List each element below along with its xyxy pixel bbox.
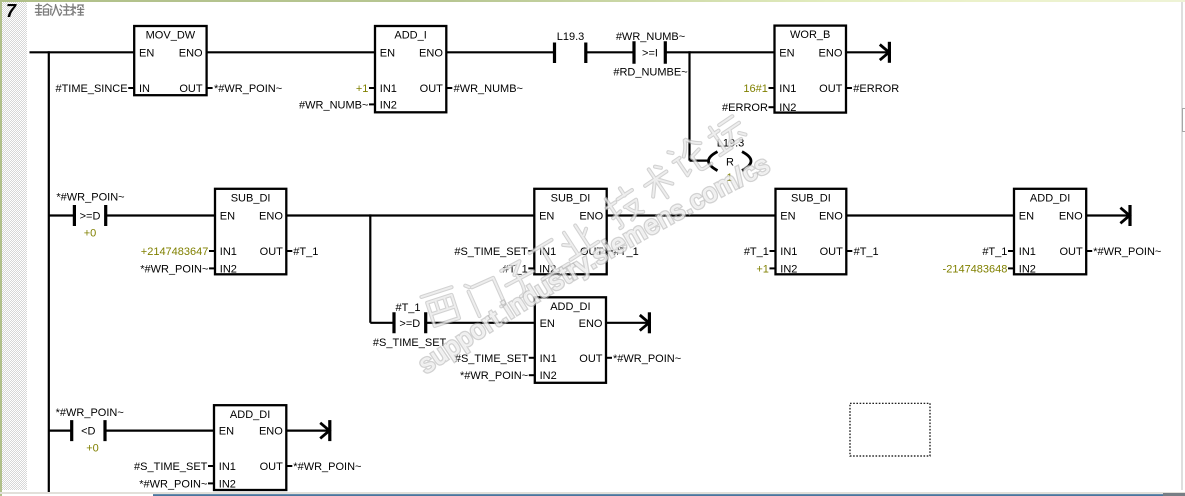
svg-text:ENO: ENO — [819, 211, 843, 223]
pin tick SUB_DI2 IN2 — [528, 267, 534, 269]
pin tick MOV_DW OUT — [207, 87, 213, 89]
pin tick MOV_DW IN — [128, 87, 134, 89]
svg-text:OUT: OUT — [260, 246, 284, 258]
svg-text:IN2: IN2 — [1019, 263, 1036, 275]
svg-text:+1: +1 — [356, 83, 369, 95]
open branch arrow rung 1 — [880, 42, 890, 63]
svg-text:ENO: ENO — [259, 211, 283, 223]
pin tick ADD_DI1 OUT — [1086, 250, 1092, 252]
box ADD_DI 1 — [1014, 189, 1086, 276]
open branch arrow rung 2 — [1120, 205, 1130, 226]
coil L19.3 (R) reset — [709, 138, 752, 184]
pin tick ADD_DI2 OUT — [606, 357, 612, 359]
box MOV_DW — [134, 26, 206, 95]
svg-text:+0: +0 — [86, 443, 99, 455]
wire SUB_DI2 ENO to SUB_DI3 EN — [607, 214, 776, 216]
svg-text:ADD_DI: ADD_DI — [550, 301, 590, 313]
svg-text:SUB_DI: SUB_DI — [231, 192, 271, 204]
svg-text:#T_1: #T_1 — [395, 302, 420, 314]
svg-text:EN: EN — [380, 47, 395, 59]
svg-text:IN1: IN1 — [380, 83, 397, 95]
svg-text:OUT: OUT — [819, 83, 843, 95]
svg-text:IN2: IN2 — [219, 478, 236, 490]
svg-text:EN: EN — [540, 318, 555, 330]
svg-text:#T_1: #T_1 — [982, 246, 1007, 258]
pin tick ADD_DI1 IN2 — [1008, 267, 1014, 269]
pin tick SUB_DI1 IN2 — [209, 267, 215, 269]
svg-text:#RD_NUMBE~: #RD_NUMBE~ — [613, 67, 687, 79]
svg-text:OUT: OUT — [179, 83, 203, 95]
svg-text:ADD_DI: ADD_DI — [230, 409, 270, 421]
svg-text:16#1: 16#1 — [743, 83, 767, 95]
svg-text:EN: EN — [219, 426, 234, 438]
pin tick SUB_DI2 IN1 — [528, 250, 534, 252]
box ADD_DI 3 — [214, 405, 286, 490]
pin tick ADD_DI2 IN1 — [529, 357, 535, 359]
svg-text:IN2: IN2 — [380, 99, 397, 111]
pin tick WOR_B OUT — [846, 87, 852, 89]
svg-text:*#WR_POIN~: *#WR_POIN~ — [56, 407, 124, 419]
svg-text:+1: +1 — [756, 263, 769, 275]
pin tick ADD_DI3 IN1 — [208, 465, 214, 467]
svg-text:#T_1: #T_1 — [854, 246, 879, 258]
box SUB_DI 2 — [534, 189, 606, 276]
wire rail to contact >=D — [48, 214, 73, 216]
svg-text:support.industry.siemens.com/c: support.industry.siemens.com/cs — [413, 149, 775, 379]
svg-text:ENO: ENO — [419, 47, 443, 59]
svg-text:EN: EN — [1019, 211, 1034, 223]
open branch arrow rung 3 — [640, 312, 650, 333]
box SUB_DI 1 — [215, 189, 286, 276]
wire branch to contact >=D rung3 — [370, 322, 394, 324]
svg-text:#S_TIME_SET: #S_TIME_SET — [134, 461, 208, 473]
wire SUB_DI3 ENO to ADD_DI1 EN — [846, 214, 1014, 216]
svg-text:OUT: OUT — [420, 83, 444, 95]
wire MOV_DW ENO to ADD_I EN — [207, 51, 375, 53]
svg-text:SUB_DI: SUB_DI — [791, 192, 831, 204]
left power rail start segment — [30, 51, 135, 53]
pin tick ADD_DI3 OUT — [286, 465, 292, 467]
right page-break line — [1181, 2, 1182, 490]
svg-text:IN2: IN2 — [220, 263, 237, 275]
wire SUB_DI1 ENO to SUB_DI2 EN — [286, 214, 534, 216]
pin tick ADD_DI2 IN2 — [529, 374, 535, 376]
svg-text:IN1: IN1 — [779, 83, 796, 95]
svg-text:ADD_DI: ADD_DI — [1030, 192, 1070, 204]
node branch junction rung2 to rung3 — [369, 214, 371, 322]
svg-text:OUT: OUT — [579, 353, 603, 365]
svg-text:ENO: ENO — [1059, 211, 1083, 223]
svg-text:IN2: IN2 — [780, 263, 797, 275]
wire comparator to WOR_B EN — [665, 51, 774, 53]
svg-text:EN: EN — [780, 211, 795, 223]
empty selection placeholder box (dotted) — [850, 403, 930, 456]
wire WOR_B ENO to open branch arrow — [846, 51, 887, 53]
svg-text:*#WR_POIN~: *#WR_POIN~ — [460, 370, 528, 382]
svg-text:#T_1: #T_1 — [744, 246, 769, 258]
node junction to reset branch — [688, 51, 690, 160]
pin tick WOR_B IN1 — [769, 87, 775, 89]
comparator contact >=D rung2 — [56, 192, 124, 240]
svg-text:ENO: ENO — [819, 47, 843, 59]
pin tick ADD_I OUT — [446, 87, 452, 89]
pin tick ADD_I IN1 — [369, 87, 375, 89]
svg-text:EN: EN — [539, 211, 554, 223]
comparator contact >=I — [613, 31, 687, 79]
svg-text:EN: EN — [139, 47, 154, 59]
svg-text:IN1: IN1 — [220, 246, 237, 258]
svg-text:ENO: ENO — [179, 47, 203, 59]
svg-text:OUT: OUT — [260, 461, 284, 473]
box ADD_I — [375, 26, 446, 112]
svg-text:OUT: OUT — [1059, 246, 1083, 258]
network number 7 — [6, 1, 26, 22]
svg-text:#S_TIME_SET: #S_TIME_SET — [454, 246, 528, 258]
pin tick SUB_DI3 IN2 — [770, 267, 776, 269]
pin tick SUB_DI3 OUT — [846, 250, 852, 252]
network comment text 输入注释 (drawn strokes) — [35, 4, 83, 16]
svg-text:#T_1: #T_1 — [293, 246, 318, 258]
svg-text:*#WR_POIN~: *#WR_POIN~ — [293, 461, 361, 473]
svg-text:#TIME_SINCE: #TIME_SINCE — [55, 83, 127, 95]
svg-text:>=D: >=D — [80, 211, 101, 223]
svg-text:*#WR_POIN~: *#WR_POIN~ — [214, 83, 282, 95]
svg-text:*#WR_POIN~: *#WR_POIN~ — [56, 192, 124, 204]
svg-text:+2147483647: +2147483647 — [141, 246, 209, 258]
wire ADD_I ENO to contact L19.3 — [446, 51, 553, 53]
pin tick ADD_I IN2 — [369, 103, 375, 105]
svg-text:IN1: IN1 — [219, 461, 236, 473]
svg-text:+0: +0 — [84, 228, 97, 240]
svg-text:#ERROR: #ERROR — [853, 83, 899, 95]
hatched network margin column — [2, 2, 27, 490]
wire contact to SUB_DI 1 — [106, 214, 215, 216]
svg-text:ENO: ENO — [259, 426, 283, 438]
svg-text:*#WR_POIN~: *#WR_POIN~ — [1093, 246, 1161, 258]
svg-text:*#WR_POIN~: *#WR_POIN~ — [613, 353, 681, 365]
svg-text:#WR_NUMB~: #WR_NUMB~ — [454, 83, 523, 95]
box ADD_DI 2 — [535, 297, 606, 383]
svg-text:SUB_DI: SUB_DI — [551, 192, 591, 204]
box WOR_B — [775, 26, 847, 115]
pin tick SUB_DI1 OUT — [286, 250, 292, 252]
svg-text:EN: EN — [220, 211, 235, 223]
svg-text:IN: IN — [139, 83, 150, 95]
svg-text:#WR_NUMB~: #WR_NUMB~ — [616, 31, 685, 43]
wire contact to ADD_DI3 EN — [105, 430, 214, 432]
svg-text:WOR_B: WOR_B — [790, 29, 830, 41]
svg-text:*#WR_POIN~: *#WR_POIN~ — [140, 263, 208, 275]
svg-text:L19.3: L19.3 — [557, 31, 585, 43]
svg-text:EN: EN — [779, 47, 794, 59]
wire contact to ADD_DI2 EN — [426, 322, 535, 324]
pin tick WOR_B IN2 — [769, 106, 775, 108]
svg-text:IN1: IN1 — [1019, 246, 1036, 258]
contact L19.3 (NO) — [555, 31, 586, 63]
wire into coil — [690, 160, 709, 162]
bottom blue window edge — [153, 494, 1185, 496]
svg-text:>=I: >=I — [642, 47, 658, 59]
pin tick ADD_DI1 IN1 — [1008, 250, 1014, 252]
svg-text:>=D: >=D — [399, 318, 420, 330]
svg-text:ENO: ENO — [579, 211, 603, 223]
pin tick SUB_DI1 IN1 — [209, 250, 215, 252]
svg-text:MOV_DW: MOV_DW — [146, 30, 196, 42]
pin tick SUB_DI3 IN1 — [770, 250, 776, 252]
svg-text:*#WR_POIN~: *#WR_POIN~ — [139, 478, 207, 490]
svg-text:-2147483648: -2147483648 — [943, 263, 1008, 275]
svg-text:#ERROR: #ERROR — [722, 102, 768, 114]
wire ADD_DI1 ENO to arrow — [1086, 214, 1128, 216]
left green edge strip — [0, 0, 2, 496]
svg-text:ENO: ENO — [579, 318, 603, 330]
comparator contact >=D rung3 — [373, 302, 447, 349]
svg-text:IN2: IN2 — [779, 102, 796, 114]
bottom right corner segment — [1163, 493, 1185, 496]
svg-text:IN1: IN1 — [780, 246, 797, 258]
box SUB_DI 3 — [776, 189, 847, 276]
comparator contact <D rung4 — [56, 407, 124, 455]
top pale-green strip — [0, 0, 1185, 2]
wire rail to contact <D rung4 — [48, 430, 71, 432]
wire contact L19.3 to comparator — [586, 51, 634, 53]
svg-text:<D: <D — [81, 426, 95, 438]
pin tick SUB_DI2 OUT — [607, 250, 613, 252]
right edge small marker box — [1182, 108, 1185, 132]
svg-text:#WR_NUMB~: #WR_NUMB~ — [299, 99, 368, 111]
wire ADD_DI2 ENO to arrow — [606, 322, 648, 324]
open branch arrow rung 4 — [320, 420, 330, 441]
left rail vertical bus — [48, 51, 50, 492]
pin tick ADD_DI3 IN2 — [208, 482, 214, 484]
bottom gray divider — [0, 492, 1185, 493]
svg-text:IN1: IN1 — [540, 353, 557, 365]
svg-text:IN2: IN2 — [540, 370, 557, 382]
wire ADD_DI3 ENO to arrow — [286, 430, 327, 432]
svg-text:ADD_I: ADD_I — [394, 30, 426, 42]
svg-text:OUT: OUT — [820, 246, 844, 258]
